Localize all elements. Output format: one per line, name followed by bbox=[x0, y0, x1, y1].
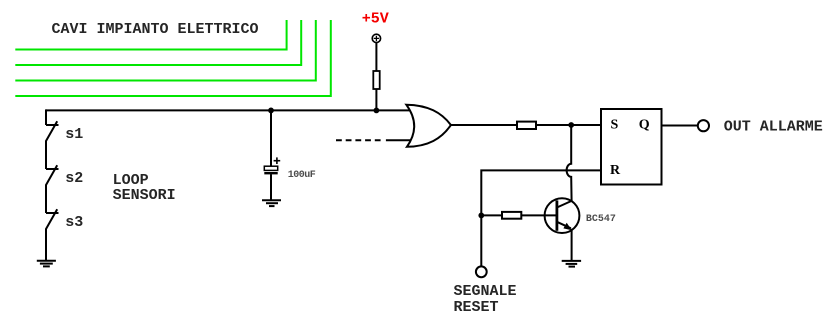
svg-text:S: S bbox=[611, 118, 619, 133]
svg-text:SENSORI: SENSORI bbox=[113, 187, 176, 204]
svg-text:+5V: +5V bbox=[362, 11, 389, 28]
svg-text:s3: s3 bbox=[65, 214, 83, 231]
svg-text:100uF: 100uF bbox=[288, 170, 316, 181]
svg-text:s1: s1 bbox=[65, 126, 83, 143]
svg-text:Q: Q bbox=[639, 118, 650, 133]
svg-text:OUT ALLARME: OUT ALLARME bbox=[724, 118, 823, 135]
svg-text:R: R bbox=[610, 163, 621, 178]
svg-text:RESET: RESET bbox=[454, 299, 499, 316]
svg-text:BC547: BC547 bbox=[586, 214, 616, 225]
svg-text:s2: s2 bbox=[65, 170, 83, 187]
svg-text:SEGNALE: SEGNALE bbox=[454, 283, 517, 300]
svg-text:CAVI IMPIANTO ELETTRICO: CAVI IMPIANTO ELETTRICO bbox=[52, 21, 259, 38]
